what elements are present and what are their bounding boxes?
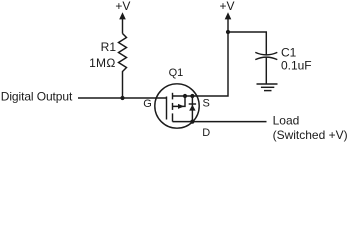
svg-text:D: D [202, 127, 210, 139]
svg-text:(Switched +V): (Switched +V) [273, 128, 348, 142]
svg-text:S: S [203, 97, 210, 109]
svg-text:Load: Load [273, 114, 300, 128]
svg-text:C1: C1 [281, 46, 297, 60]
svg-text:0.1uF: 0.1uF [281, 59, 312, 73]
svg-text:Digital Output: Digital Output [1, 89, 73, 103]
svg-text:+V: +V [220, 0, 235, 13]
svg-text:R1: R1 [101, 40, 117, 54]
svg-text:Q1: Q1 [169, 67, 184, 79]
svg-text:1MΩ: 1MΩ [89, 56, 115, 70]
svg-text:+V: +V [115, 0, 130, 13]
svg-text:G: G [143, 98, 152, 110]
